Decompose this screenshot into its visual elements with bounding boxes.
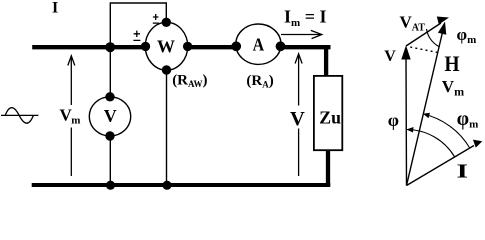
ammeter A [236,24,281,64]
wattmeter terminal (bottom) [162,65,171,74]
wattmeter terminal (left) [141,42,150,51]
junction node (bottom bus / voltmeter branch) [106,181,115,190]
svg-text:I: I [52,0,58,17]
svg-text:W: W [157,37,175,57]
phasor vector VAT [406,23,441,46]
arrow Vm (source voltage) [68,56,75,176]
junction node (bottom bus / wattmeter branch) [162,181,171,190]
wire: node to voltmeter [109,47,111,97]
polarity mark (current coil) [133,31,140,41]
voltmeter terminal (bottom) [105,131,114,140]
svg-text:V: V [384,48,396,65]
svg-text:(RA): (RA) [246,73,273,89]
svg-text:A: A [253,34,265,54]
svg-text:Im = I: Im = I [284,7,326,30]
wire: top bus (A to corner) and right drop [281,47,331,76]
polarity mark (voltage coil) [153,14,159,23]
phasor vector V [405,58,408,186]
wire: top bus (left segment) [32,45,145,49]
ammeter terminal (left) [231,41,241,51]
angle arc (VAT to Vm, near tip) [427,29,439,47]
load Zu [314,76,342,150]
AC source (sine symbol) [1,108,38,124]
wire: load bottom drop [326,150,330,185]
wattmeter terminal (top) [162,18,171,27]
voltmeter terminal (top) [105,92,114,101]
angle arc phi_m (Vm to I) [423,114,469,148]
phasor vector I [407,146,475,186]
wire: voltmeter to bottom bus [109,136,111,185]
svg-text:φ: φ [388,110,399,130]
svg-text:V: V [290,108,305,130]
current direction arrow Im [281,30,322,38]
wire: bottom bus [32,183,331,187]
ammeter terminal (right) [276,41,286,51]
voltmeter V [89,97,130,136]
phasor vector Vm [407,28,444,186]
angle arc phi (V to I) [407,130,455,157]
wire: wattmeter bottom terminal to bottom bus [166,70,168,185]
junction node (top bus / voltmeter branch) [105,42,115,52]
wire: top bus (W to A segment) [188,45,237,49]
arrow V (load voltage) [295,54,302,176]
svg-text:Zu: Zu [319,108,341,128]
projection dotted line (H) [410,47,438,53]
wattmeter W [145,22,187,70]
svg-text:V: V [104,106,117,126]
wattmeter terminal (right) [183,42,192,51]
wattmeter voltage-coil loop wire [110,3,166,47]
svg-text:H: H [444,51,459,76]
svg-text:I: I [457,161,469,183]
